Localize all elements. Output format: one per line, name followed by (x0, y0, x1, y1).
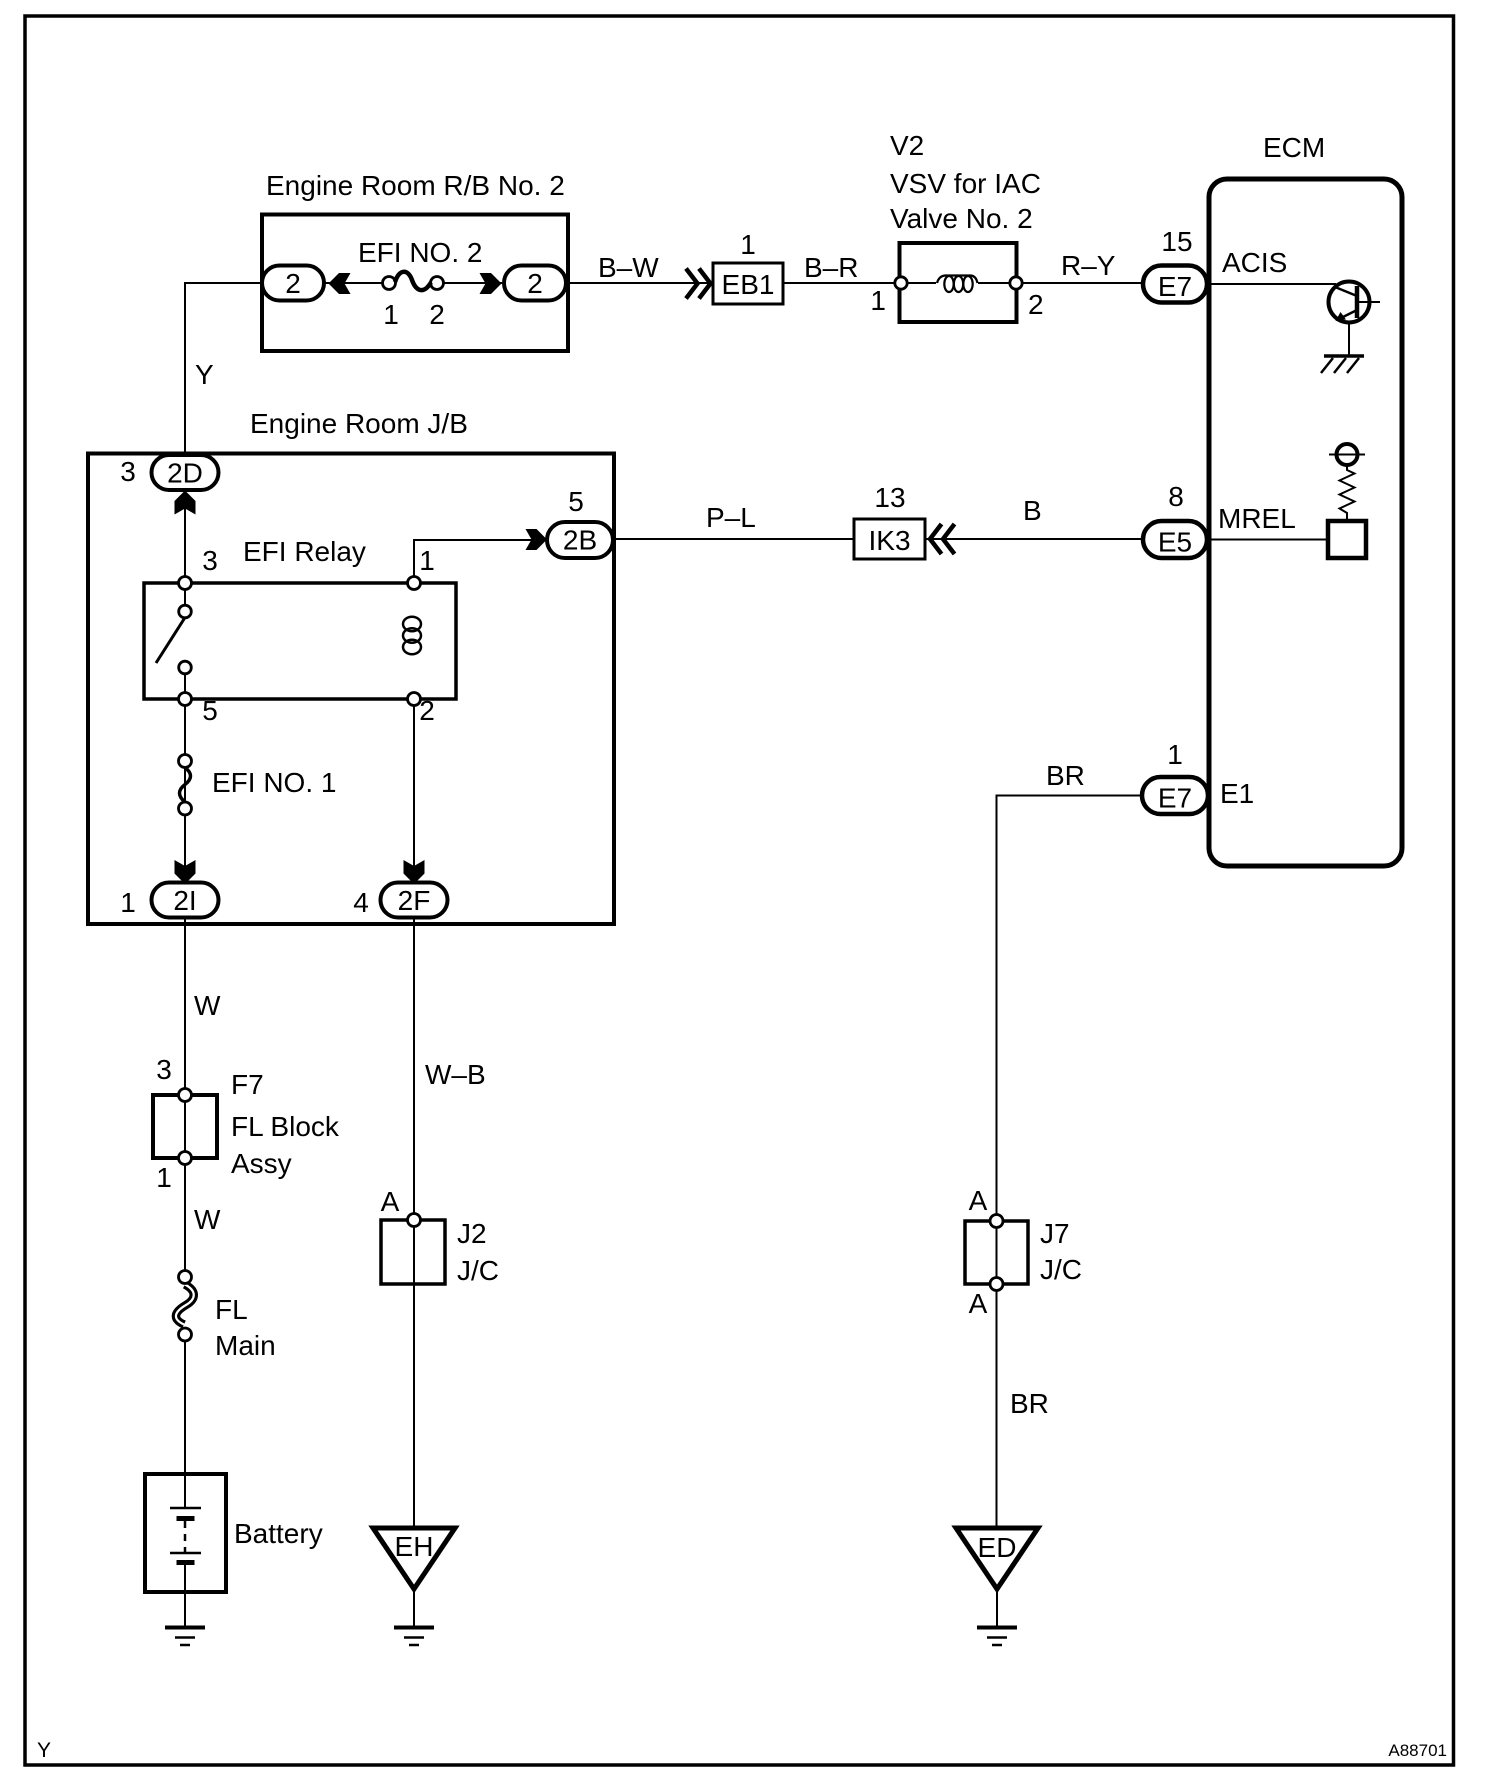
svg-text:BR: BR (1046, 760, 1085, 791)
svg-text:4: 4 (353, 887, 369, 918)
svg-text:ECM: ECM (1263, 132, 1325, 163)
Engine Room R/B No. 2 box (262, 215, 568, 352)
svg-text:E7: E7 (1158, 783, 1192, 814)
svg-text:2I: 2I (173, 885, 196, 916)
relay pin 1 (408, 577, 421, 590)
EFI relay box (144, 583, 456, 699)
svg-text:1: 1 (740, 229, 756, 260)
svg-text:2: 2 (1028, 289, 1044, 320)
ground triangle ED (956, 1528, 1038, 1589)
arrow into right oval (pointing right) (480, 273, 502, 294)
svg-text:3: 3 (156, 1054, 172, 1085)
relay pin 2 (408, 693, 421, 706)
svg-text:B: B (1023, 495, 1042, 526)
wire FL Main to battery (184, 1341, 186, 1508)
svg-text:EFI Relay: EFI Relay (243, 536, 366, 567)
fuse EFI NO. 1 (179, 755, 192, 816)
battery terminal circle (1337, 444, 1358, 465)
svg-text:E1: E1 (1220, 778, 1254, 809)
svg-text:A88701: A88701 (1388, 1741, 1447, 1760)
svg-text:Assy: Assy (231, 1148, 292, 1179)
resistor (zigzag) above block (1340, 466, 1355, 521)
svg-text:V2: V2 (890, 130, 924, 161)
svg-text:B–R: B–R (804, 252, 858, 283)
svg-text:A: A (969, 1185, 988, 1216)
svg-text:Engine Room J/B: Engine Room J/B (250, 408, 468, 439)
V2 pin 2 (1010, 277, 1022, 289)
svg-text:2: 2 (285, 268, 301, 299)
svg-text:VSV for IAC: VSV for IAC (890, 168, 1041, 199)
wire W: 2I to F7 (184, 918, 186, 1090)
wire B: IK3 to E5 (925, 538, 1143, 540)
svg-text:Valve No. 2: Valve No. 2 (890, 203, 1033, 234)
svg-text:W–B: W–B (425, 1059, 486, 1090)
wire EH to ground (413, 1589, 415, 1626)
ground symbol (battery) (165, 1628, 205, 1646)
svg-text:1: 1 (419, 545, 435, 576)
connector EB1 (713, 263, 783, 304)
wire W: F7 to FL Main (184, 1165, 186, 1272)
svg-text:Battery: Battery (234, 1518, 323, 1549)
svg-text:A: A (969, 1288, 988, 1319)
svg-text:Y: Y (195, 359, 214, 390)
svg-text:2: 2 (527, 268, 543, 299)
ground symbol (ED) (977, 1628, 1017, 1646)
VSV V2 box (900, 243, 1017, 322)
svg-text:15: 15 (1161, 226, 1192, 257)
arrow up into 2D (175, 491, 196, 515)
svg-text:2: 2 (429, 299, 445, 330)
svg-text:5: 5 (202, 695, 218, 726)
connector oval 2 (left) (262, 266, 324, 301)
wire B-W: from R/B connector 2 to EB1 (566, 282, 713, 284)
ECM box (1209, 179, 1402, 866)
svg-text:BR: BR (1010, 1388, 1049, 1419)
battery (145, 1474, 226, 1592)
arrow down into 2F (404, 860, 425, 884)
coil of VSV (906, 276, 1011, 293)
svg-text:2D: 2D (167, 458, 203, 489)
svg-text:E7: E7 (1158, 271, 1192, 302)
connector oval 2D (152, 455, 219, 490)
svg-text:1: 1 (156, 1162, 172, 1193)
transistor Q (ECM driver) (1329, 282, 1381, 323)
wire inside R/B between ovals and fuse (324, 282, 504, 284)
svg-text:1: 1 (870, 285, 886, 316)
wire R-Y: V2 to ECM E7 (1022, 282, 1144, 284)
svg-text:IK3: IK3 (868, 525, 910, 556)
svg-text:1: 1 (1167, 739, 1183, 770)
wire W-B: 2F to J2 and down to EH (413, 918, 415, 1529)
fusible link block F7 FL Block Assy (153, 1089, 217, 1165)
relay pin 5 (179, 693, 192, 706)
svg-text:Engine Room R/B No. 2: Engine Room R/B No. 2 (266, 170, 565, 201)
connector oval 2F (381, 883, 448, 918)
svg-text:E5: E5 (1158, 527, 1192, 558)
connector oval 2B (547, 522, 613, 558)
svg-text:J7: J7 (1040, 1218, 1070, 1249)
connector oval 2 (right) (504, 266, 566, 301)
svg-text:1: 1 (120, 887, 136, 918)
svg-text:2: 2 (419, 695, 435, 726)
svg-text:Y: Y (37, 1739, 51, 1762)
wire B-R: EB1 to V2 (783, 282, 901, 284)
wire P-L: 2B to IK3 (613, 538, 854, 540)
svg-text:8: 8 (1168, 481, 1184, 512)
V2 pin 1 (895, 277, 907, 289)
arrow right into 2B (526, 529, 548, 550)
svg-text:EFI NO. 2: EFI NO. 2 (358, 237, 482, 268)
wire BR: E7(E1) to J7 (997, 796, 1143, 1529)
wire MREL to relay block (1207, 539, 1328, 541)
relay pin 3 (179, 577, 192, 590)
svg-text:W: W (194, 1204, 221, 1235)
chassis ground (hatched) (1321, 356, 1364, 373)
wire ACIS to transistor (1207, 283, 1336, 285)
svg-text:B–W: B–W (598, 252, 659, 283)
ground symbol (EH) (394, 1628, 434, 1646)
svg-text:F7: F7 (231, 1069, 264, 1100)
svg-text:MREL: MREL (1218, 503, 1296, 534)
svg-text:FL: FL (215, 1294, 248, 1325)
wire relay pin 1 up to 2B (414, 540, 547, 583)
wire ED to ground (996, 1589, 998, 1626)
svg-text:5: 5 (568, 486, 584, 517)
relay coil (403, 617, 421, 654)
svg-text:J/C: J/C (1040, 1254, 1082, 1285)
svg-text:EFI NO. 1: EFI NO. 1 (212, 767, 336, 798)
svg-text:2B: 2B (563, 525, 597, 556)
svg-text:Main: Main (215, 1330, 276, 1361)
ground triangle EH (373, 1528, 455, 1589)
wire relay pin 2 down to 2F (413, 699, 415, 884)
wire Y: from R/B connector 2 left to Engine Room J/B 2D (185, 283, 262, 453)
svg-text:P–L: P–L (706, 502, 756, 533)
svg-text:W: W (194, 990, 221, 1021)
arrow into left oval (pointing left) (329, 273, 351, 294)
svg-text:R–Y: R–Y (1061, 250, 1116, 281)
MREL relay coil block (1328, 521, 1366, 558)
svg-text:EB1: EB1 (722, 269, 775, 300)
fuse EFI NO. 2 (383, 272, 444, 290)
svg-text:1: 1 (383, 299, 399, 330)
junction connector J7 (965, 1215, 1028, 1291)
wire relay pin 5 to fuse to 2I (184, 673, 186, 884)
fusible link FL Main (176, 1271, 194, 1342)
connector IK3 (854, 519, 925, 559)
wire transistor to chassis ground (1348, 323, 1350, 357)
junction connector J2 (381, 1214, 445, 1285)
chevrons after IK3 (930, 524, 955, 554)
relay switch (156, 605, 191, 674)
svg-text:FL Block: FL Block (231, 1111, 340, 1142)
svg-text:3: 3 (202, 545, 218, 576)
chevrons before EB1 (686, 269, 711, 299)
svg-text:3: 3 (120, 456, 136, 487)
svg-text:13: 13 (874, 482, 905, 513)
wire 2D to relay pin 3 (184, 490, 186, 606)
svg-text:ACIS: ACIS (1222, 247, 1287, 278)
svg-text:J/C: J/C (457, 1255, 499, 1286)
svg-text:2F: 2F (398, 885, 431, 916)
svg-text:A: A (381, 1186, 400, 1217)
svg-text:EH: EH (395, 1531, 434, 1562)
arrow down into 2I (175, 860, 196, 884)
svg-text:ED: ED (978, 1532, 1017, 1563)
wire battery to ground (184, 1563, 186, 1626)
svg-text:J2: J2 (457, 1218, 487, 1249)
connector oval 2I (152, 883, 219, 918)
Engine Room J/B box (88, 454, 614, 925)
